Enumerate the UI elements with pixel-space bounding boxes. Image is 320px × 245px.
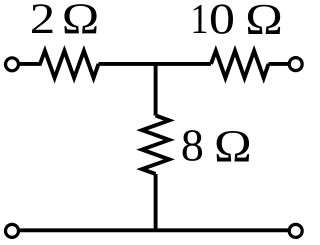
label R3 unit Ω <box>217 131 249 162</box>
label R2 value digit 1 <box>194 5 207 33</box>
wire bottom rail <box>19 228 290 232</box>
resistor R3 8Ω <box>142 116 169 175</box>
label R3 value digit 8 <box>183 130 202 161</box>
wire R2 to right terminal <box>269 62 290 66</box>
terminal bottom-left <box>6 224 19 237</box>
label R1 value digit 2 <box>32 4 52 33</box>
resistor R2 10Ω <box>211 51 269 78</box>
label R1 unit Ω <box>64 4 96 33</box>
resistor R1 2Ω <box>19 51 99 78</box>
label R2 unit Ω <box>248 5 280 34</box>
terminal top-left <box>6 58 19 71</box>
wire R3 down to bottom rail <box>154 174 158 230</box>
label R2 value digit 0 <box>211 4 233 34</box>
terminal bottom-right <box>289 224 302 237</box>
wire top node down to R3 <box>154 64 158 116</box>
terminal top-right <box>289 58 302 71</box>
wire top rail between R1 and R2 <box>99 62 212 66</box>
